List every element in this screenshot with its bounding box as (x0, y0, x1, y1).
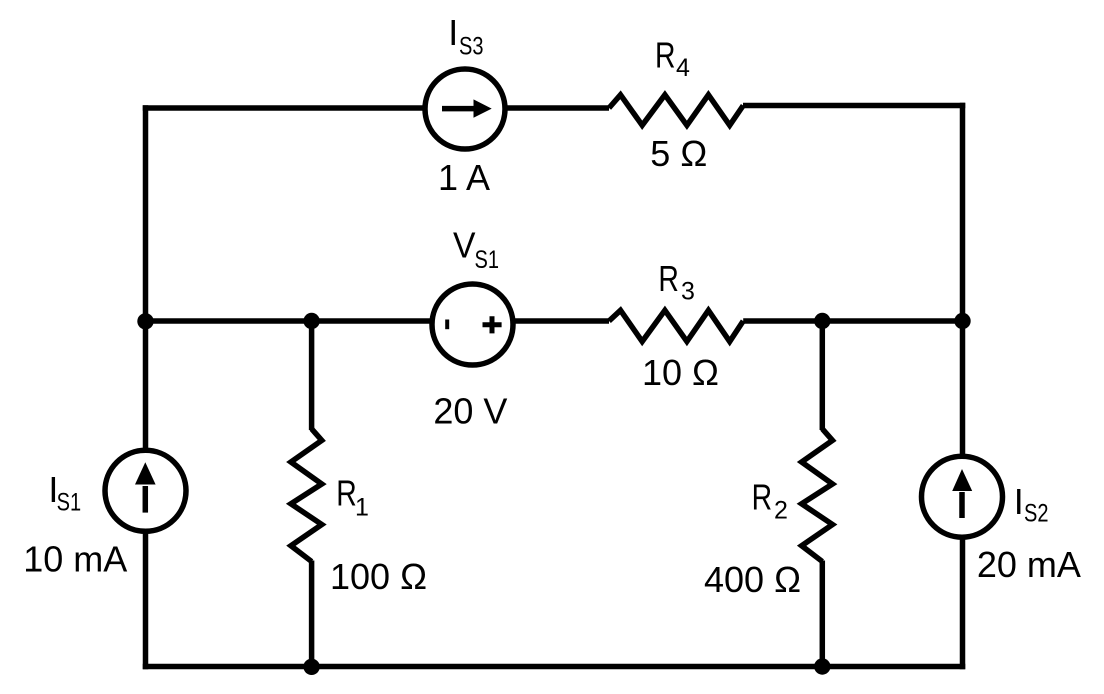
wire: R2 top lead (820, 321, 826, 430)
node dot: right node (954, 313, 970, 329)
wire: middle rail left (146, 318, 610, 324)
svg-text:S3: S3 (459, 33, 484, 61)
voltage source VS1 (432, 284, 513, 365)
wire: bottom rail (143, 664, 966, 670)
svg-text:R: R (752, 476, 773, 517)
resistor R2 zigzag (802, 429, 833, 562)
wire: middle rail right (743, 318, 962, 324)
wire: top-right rail (743, 103, 965, 109)
svg-text:R: R (658, 258, 679, 299)
svg-text:20 mA: 20 mA (977, 544, 1081, 585)
resistor R1 zigzag (291, 429, 322, 562)
current source IS1 (105, 450, 186, 531)
svg-text:20 V: 20 V (433, 390, 507, 431)
wire: top-left rail (143, 105, 609, 111)
wire: R2 bottom lead (820, 561, 826, 667)
svg-text:R: R (336, 472, 357, 513)
svg-text:100 Ω: 100 Ω (330, 556, 427, 597)
svg-text:S1: S1 (475, 246, 500, 274)
current source IS2 (922, 456, 1003, 537)
svg-text:5 Ω: 5 Ω (650, 133, 707, 174)
svg-text:S1: S1 (57, 489, 82, 517)
node dot: left node (137, 313, 153, 329)
svg-text:S2: S2 (1024, 500, 1049, 528)
wire: R1 bottom lead (309, 561, 315, 667)
svg-text:I: I (1014, 481, 1024, 522)
node dot: R1 bottom (303, 659, 319, 675)
svg-text:1: 1 (355, 494, 369, 522)
svg-text:3: 3 (681, 278, 695, 306)
svg-text:1 A: 1 A (438, 157, 490, 198)
svg-text:10 mA: 10 mA (23, 539, 127, 580)
wire: R1 top lead (309, 321, 315, 430)
wire: right rail (960, 103, 966, 670)
wire: left rail (143, 105, 149, 669)
svg-text:R: R (655, 35, 676, 76)
svg-text:2: 2 (774, 497, 788, 525)
resistor R4 zigzag (609, 95, 743, 126)
svg-text:I: I (448, 12, 458, 53)
resistor R3 zigzag (609, 310, 743, 341)
svg-text:400 Ω: 400 Ω (704, 559, 801, 600)
svg-text:V: V (453, 225, 476, 266)
node dot: R2 bottom (814, 658, 830, 674)
svg-text:4: 4 (676, 54, 690, 82)
svg-text:10 Ω: 10 Ω (642, 352, 719, 393)
current source IS3 (425, 69, 505, 149)
node dot: R1 top (303, 313, 319, 329)
node dot: R2 top (814, 313, 830, 329)
